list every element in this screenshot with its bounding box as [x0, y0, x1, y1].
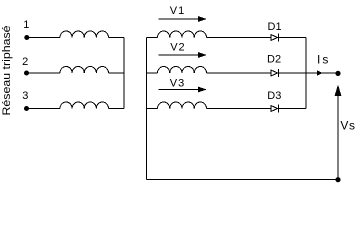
arrowhead voltage V1: [198, 16, 207, 22]
arrowhead voltage Vs: [335, 85, 342, 96]
arrowhead voltage V3: [198, 87, 207, 93]
wire phase 1 to primary bus: [109, 37, 125, 39]
arrow voltage V3: [159, 89, 200, 91]
wire primary neutral bus: [123, 38, 125, 109]
wire phase 2 to primary bus: [109, 72, 125, 74]
svg-text:V1: V1: [170, 5, 185, 17]
arrow voltage V2: [159, 54, 200, 56]
inductor primary winding phase 2: [60, 66, 109, 73]
wire phase 1 input: [27, 37, 60, 39]
wire secondary 2 to diode D2: [207, 72, 272, 74]
inductor secondary winding phase 3: [158, 102, 207, 109]
svg-text:Vs: Vs: [340, 119, 355, 133]
arrow voltage V1: [159, 18, 200, 20]
wire secondary bus to winding 2: [146, 72, 157, 74]
wire secondary neutral bus: [145, 38, 147, 180]
arrowhead voltage V2: [198, 52, 207, 58]
inductor secondary winding phase 1: [158, 31, 207, 38]
inductor primary winding phase 3: [60, 102, 109, 109]
svg-text:V3: V3: [170, 78, 185, 90]
arrowhead current Is: [317, 70, 323, 76]
wire diode D2 to cathode bus: [278, 72, 306, 74]
inductor secondary winding phase 2: [158, 66, 207, 73]
wire output Is: [306, 72, 338, 74]
inductor primary winding phase 1: [60, 31, 109, 38]
wire phase 3 input: [27, 108, 61, 110]
wire secondary bus to winding 3: [146, 108, 157, 110]
diode D1: [271, 34, 279, 42]
arrow voltage Vs: [337, 96, 339, 180]
svg-text:Réseau triphasé: Réseau triphasé: [1, 26, 13, 116]
wire secondary bus to winding 1: [146, 37, 157, 39]
wire secondary 1 to diode D1: [207, 37, 272, 39]
node 3 terminal dot: [24, 106, 29, 111]
svg-text:D1: D1: [268, 21, 282, 33]
svg-text:D2: D2: [267, 54, 281, 66]
svg-text:Is: Is: [317, 53, 330, 67]
wire phase 3 to primary bus: [109, 108, 125, 110]
wire diode D1 to cathode bus: [278, 37, 306, 39]
svg-text:3: 3: [22, 90, 28, 102]
svg-text:V2: V2: [170, 42, 185, 54]
svg-text:2: 2: [22, 56, 28, 68]
node output negative terminal dot: [335, 177, 340, 182]
svg-text:D3: D3: [267, 90, 281, 102]
wire secondary 3 to diode D3: [207, 108, 272, 110]
node 1 terminal dot: [24, 35, 29, 40]
wire bottom return rail: [146, 179, 338, 181]
diode D3: [271, 105, 279, 113]
node 2 terminal dot: [24, 71, 29, 76]
wire cathode bus: [305, 38, 307, 109]
wire phase 2 input: [27, 72, 61, 74]
svg-text:1: 1: [23, 19, 29, 31]
node output positive terminal dot: [335, 71, 340, 76]
diode D2: [271, 69, 279, 77]
wire diode D3 to cathode bus: [278, 108, 306, 110]
